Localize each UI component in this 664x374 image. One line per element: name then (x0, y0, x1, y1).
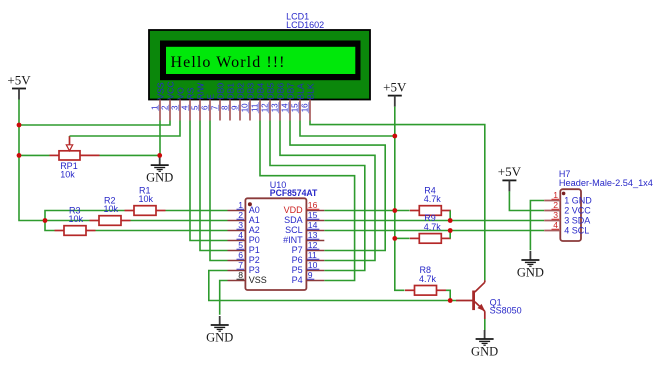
junction R9/+5V (392, 236, 397, 241)
svg-text:+5V: +5V (7, 72, 31, 87)
potentiometer RP1 10k (50, 136, 100, 160)
svg-text:10k: 10k (104, 204, 119, 214)
wire LCD DB5 to U10 P5 (270, 121, 365, 271)
svg-text:1 GND: 1 GND (564, 196, 592, 206)
connector H7 Header-Male-2.54_1x4 box (560, 189, 581, 241)
svg-text:9: 9 (230, 105, 239, 110)
svg-text:10k: 10k (60, 169, 75, 179)
svg-text:BLA: BLA (295, 83, 305, 100)
H7 pin 1 (544, 190, 592, 206)
wire SCL bus U10 to header (324, 230, 544, 232)
svg-text:2: 2 (553, 200, 558, 210)
svg-text:E: E (205, 94, 215, 100)
U10 pin 7 (P3) (228, 260, 260, 275)
LCD1 pin 15 (BLA) (290, 83, 305, 120)
svg-text:GND: GND (517, 266, 544, 280)
LCD1 pin 10 (DB3) (240, 83, 255, 121)
svg-text:VO: VO (175, 87, 185, 100)
wire LCD RS to U10 P0 (190, 121, 228, 241)
svg-text:2: 2 (238, 210, 243, 220)
wire +5V to header VCC (509, 191, 544, 210)
svg-text:15: 15 (308, 210, 318, 220)
svg-text:8: 8 (220, 105, 229, 110)
svg-text:VSS: VSS (155, 82, 165, 99)
svg-text:4: 4 (553, 220, 558, 230)
U10 pin 11 (P6) (292, 250, 325, 265)
resistor R8 4.7k (405, 286, 446, 296)
wire +5V down to R8 (395, 238, 405, 290)
U10 pin 16 (VDD) (284, 200, 325, 215)
+5V supply right (498, 164, 522, 191)
svg-text:GND: GND (471, 345, 498, 359)
svg-text:6: 6 (200, 105, 209, 110)
svg-text:4.7k: 4.7k (424, 222, 442, 232)
svg-text:DB0: DB0 (215, 83, 225, 100)
LCD1 pin 12 (DB5) (260, 83, 275, 121)
+5V supply middle (383, 79, 407, 106)
svg-text:13: 13 (308, 230, 318, 240)
svg-text:DB4: DB4 (255, 83, 265, 100)
LCD1 pin 3 (VO) (170, 87, 185, 121)
svg-text:6: 6 (238, 250, 243, 260)
svg-text:10: 10 (308, 260, 318, 270)
svg-text:VCC: VCC (165, 81, 175, 99)
LCD1 pin 6 (E) (200, 94, 215, 121)
svg-text:4: 4 (180, 105, 189, 110)
resistor R9 4.7k (410, 234, 451, 244)
svg-text:PCF8574AT: PCF8574AT (270, 188, 318, 198)
svg-text:P2: P2 (249, 255, 260, 265)
U10 pin 1 (A0) (228, 200, 260, 215)
LCD1 pin 7 (DB0) (210, 83, 225, 121)
svg-text:14: 14 (308, 220, 318, 230)
wire to R3 (45, 221, 55, 231)
svg-text:14: 14 (280, 103, 289, 112)
wire +5V middle vertical (394, 107, 396, 239)
svg-text:P7: P7 (292, 245, 303, 255)
junction R4/SDA (448, 218, 453, 223)
wire R9 to SCL (449, 231, 451, 239)
resistor R1 10k (125, 206, 166, 216)
wire LCD DB7 to U10 P7 (290, 121, 385, 251)
svg-text:Header-Male-2.54_1x4: Header-Male-2.54_1x4 (559, 178, 653, 188)
U10 pin 13 (#INT) (283, 230, 324, 245)
wire to R2 (45, 220, 90, 222)
wire LCD E to U10 P2 (210, 121, 228, 261)
wire wiper to VO (70, 121, 181, 137)
junction +5V/VCC (17, 123, 22, 128)
svg-text:2 VCC: 2 VCC (564, 206, 591, 216)
svg-text:13: 13 (270, 103, 279, 112)
wire U10 VSS to ground (220, 281, 228, 315)
svg-text:+5V: +5V (383, 79, 407, 94)
resistor R4 4.7k (410, 206, 451, 216)
U10 pin 4 (P0) (228, 230, 260, 245)
wire LCD VSS down (159, 121, 161, 156)
+5V supply left (7, 72, 31, 99)
wire LCD DB4 to U10 P4 (260, 121, 355, 281)
svg-text:3: 3 (553, 210, 558, 220)
svg-text:16: 16 (300, 103, 309, 112)
LCD1 pin 13 (DB6) (270, 83, 285, 121)
wire +5V to LCD VCC (19, 121, 170, 126)
svg-text:VSS: VSS (249, 275, 267, 285)
LCD module LCD1 body (149, 30, 370, 100)
wire +5V left rail (19, 100, 45, 221)
svg-text:#INT: #INT (283, 235, 303, 245)
svg-text:BLK: BLK (305, 83, 315, 100)
svg-text:SS8050: SS8050 (490, 305, 522, 315)
U10 pin 2 (A1) (228, 210, 260, 225)
IC U10 PCF8574AT box (245, 198, 306, 290)
LCD1 pin 14 (DB7) (280, 83, 295, 121)
wire Q1 emitter to ground (484, 319, 486, 330)
wire R1 to U10 A0 (166, 210, 228, 212)
LCD1 pin 16 (BLK) (300, 83, 315, 120)
svg-text:4: 4 (238, 230, 243, 240)
LCD1 pin 5 (R/W) (190, 82, 205, 120)
LCD1 pin 11 (DB4) (250, 83, 265, 121)
U10 pin 6 (P2) (228, 250, 260, 265)
svg-text:P0: P0 (249, 235, 260, 245)
svg-text:P4: P4 (292, 275, 303, 285)
svg-text:A1: A1 (249, 215, 260, 225)
wire RP1 to GND node (100, 154, 160, 156)
wire LCD BLK to Q1 collector (310, 121, 485, 281)
svg-text:10: 10 (240, 103, 249, 112)
svg-text:GND: GND (206, 331, 233, 345)
junction +5V/RP1 (17, 153, 22, 158)
svg-text:VDD: VDD (284, 205, 304, 215)
wire header GND pin to ground (530, 201, 544, 251)
svg-text:7: 7 (238, 260, 243, 270)
LCD1 pin 9 (DB2) (230, 83, 245, 121)
ground under LCD VSS (146, 156, 173, 185)
wire LCD R/W to U10 P1 (200, 121, 228, 251)
svg-text:P5: P5 (292, 265, 303, 275)
svg-text:8: 8 (238, 270, 243, 280)
svg-text:7: 7 (210, 105, 219, 110)
LCD bezel (160, 41, 361, 81)
svg-text:1: 1 (150, 105, 159, 110)
wire to R1 (45, 211, 125, 221)
wire R4 to SDA (449, 211, 451, 221)
wire SDA bus U10 to header (324, 220, 544, 222)
junction base/R8/P3 (448, 298, 453, 303)
svg-text:R/W: R/W (195, 82, 205, 100)
wire LCD BLA to +5V (300, 121, 395, 137)
wire LCD DB6 to U10 P6 (280, 121, 375, 261)
ground under Q1 (471, 330, 498, 359)
wire R3 to U10 A2 (96, 230, 228, 232)
ground under U10 (206, 316, 233, 345)
svg-text:10k: 10k (69, 214, 84, 224)
LCD1 pin 2 (VCC) (160, 81, 175, 120)
LCD screen (166, 47, 355, 74)
svg-text:DB7: DB7 (285, 83, 295, 100)
svg-text:5: 5 (238, 240, 243, 250)
svg-text:5: 5 (190, 105, 199, 110)
wire R8 to base node (446, 290, 450, 300)
U10 pin 12 (P7) (292, 240, 325, 255)
U10 pin 15 (SDA) (284, 210, 324, 225)
svg-text:11: 11 (250, 103, 259, 112)
svg-text:15: 15 (290, 103, 299, 112)
junction R9/SCL (448, 228, 453, 233)
svg-text:A0: A0 (249, 205, 260, 215)
svg-text:1: 1 (553, 190, 558, 200)
junction address pullups (43, 218, 48, 223)
svg-text:2: 2 (160, 105, 169, 110)
svg-text:3: 3 (238, 220, 243, 230)
U10 pin 14 (SCL) (285, 220, 324, 235)
U10 pin 5 (P1) (228, 240, 260, 255)
H7 pin-1 marker (562, 192, 566, 196)
LCD1 pin 4 (RS) (180, 87, 195, 120)
LCD1 pin 8 (DB1) (220, 83, 235, 121)
U10 pin 3 (A2) (228, 220, 260, 235)
svg-text:4.7k: 4.7k (424, 194, 442, 204)
svg-text:GND: GND (146, 171, 173, 185)
svg-text:12: 12 (260, 103, 269, 112)
svg-text:4 SCL: 4 SCL (564, 226, 589, 236)
svg-text:DB5: DB5 (265, 83, 275, 100)
svg-text:DB6: DB6 (275, 83, 285, 100)
svg-text:4.7k: 4.7k (419, 274, 437, 284)
U10 pin 10 (P5) (292, 260, 325, 275)
resistor R2 10k (90, 216, 131, 226)
svg-text:SDA: SDA (284, 215, 303, 225)
svg-text:3 SDA: 3 SDA (564, 216, 590, 226)
svg-text:9: 9 (308, 270, 313, 280)
svg-text:Hello World !!!: Hello World !!! (171, 54, 285, 71)
svg-text:SCL: SCL (285, 225, 303, 235)
wire R2 to U10 A1 (131, 220, 228, 222)
svg-text:DB1: DB1 (225, 83, 235, 100)
svg-text:3: 3 (170, 105, 179, 110)
svg-text:DB3: DB3 (245, 83, 255, 100)
LCD1 pin 1 (VSS) (150, 82, 165, 120)
wire U10 VDD to +5V/R4 (324, 210, 409, 212)
wire U10 P3 to Q1 base (209, 271, 456, 301)
svg-text:P6: P6 (292, 255, 303, 265)
svg-text:16: 16 (308, 200, 318, 210)
transistor Q1 SS8050 (456, 280, 485, 319)
svg-text:12: 12 (308, 240, 318, 250)
svg-text:RS: RS (185, 87, 195, 99)
svg-text:1: 1 (238, 200, 243, 210)
U10 pin 8 (VSS) (228, 270, 267, 285)
svg-text:LCD1602: LCD1602 (286, 20, 324, 30)
H7 pin 3 (544, 210, 590, 226)
H7 pin 2 (544, 200, 591, 216)
svg-text:+5V: +5V (498, 164, 522, 179)
ground under header (517, 251, 544, 280)
junction VSS/RP1/GND (157, 153, 162, 158)
U10 pin-1 marker (248, 202, 252, 206)
svg-text:P1: P1 (249, 245, 260, 255)
junction VDD/+5V (392, 208, 397, 213)
svg-text:10k: 10k (139, 194, 154, 204)
junction BLA/+5V (392, 134, 397, 139)
svg-text:P3: P3 (249, 265, 260, 275)
U10 pin 9 (P4) (292, 270, 325, 285)
svg-text:11: 11 (308, 250, 317, 260)
svg-text:A2: A2 (249, 225, 260, 235)
wire +5V to RP1 (19, 154, 50, 156)
resistor R3 10k (55, 226, 96, 236)
wire +5V to R9 (395, 237, 410, 239)
H7 pin 4 (544, 220, 589, 236)
svg-text:DB2: DB2 (235, 83, 245, 100)
